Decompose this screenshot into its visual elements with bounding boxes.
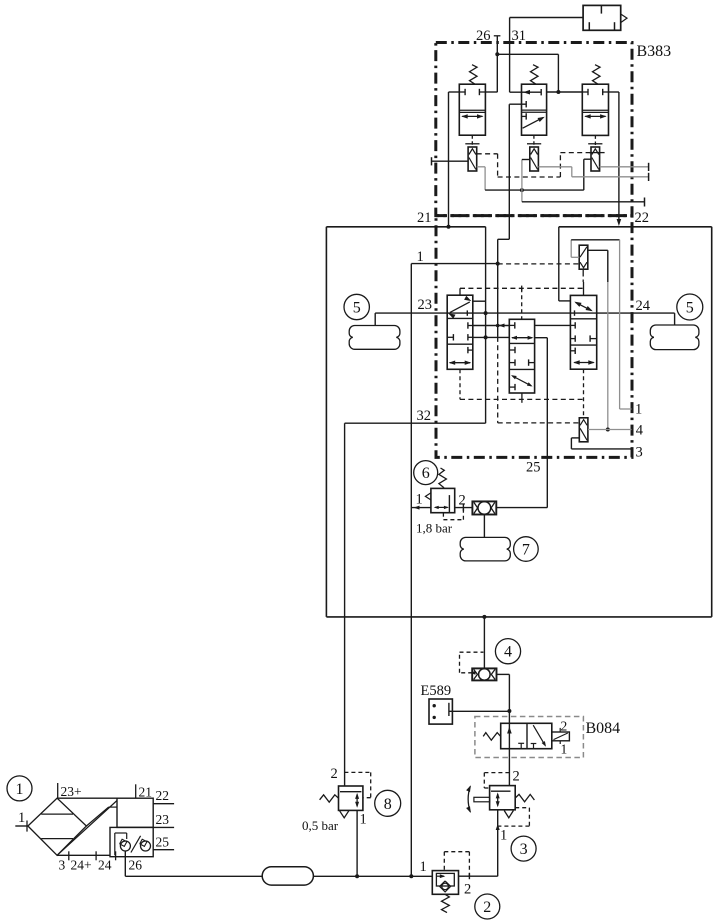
valve L tick right top (466, 310, 468, 315)
wire 32 horizontal (345, 422, 486, 424)
svg-text:32: 32 (417, 408, 432, 424)
inline reservoir (pill) (262, 867, 313, 885)
pilot line valve B (533, 135, 535, 147)
svg-text:1: 1 (16, 781, 24, 798)
wire valve C right port (609, 91, 619, 93)
valve L port right mid2 (468, 336, 473, 338)
wire 21 down (448, 92, 450, 227)
bottom edge (57, 854, 110, 856)
callout 7 (514, 537, 539, 562)
check valves inside (114, 833, 116, 855)
protection valve lower block (110, 827, 153, 856)
valve 3 lever rod (474, 797, 490, 802)
svg-text:21: 21 (139, 785, 153, 800)
valve 8 dashed pilot loop (344, 771, 370, 773)
dashed pilot to valve M (521, 288, 523, 319)
wire valve M right top to valve R (535, 324, 571, 326)
air bellows left (349, 326, 400, 350)
pilot line valve C (594, 135, 596, 147)
svg-text:E589: E589 (421, 683, 452, 699)
valve 6 relief mark (425, 493, 431, 501)
valve L exit top-right (473, 300, 486, 302)
valve R blocked low (570, 350, 575, 352)
junction 26-line / branch (495, 52, 499, 56)
svg-text:8: 8 (384, 796, 392, 813)
svg-text:1: 1 (635, 402, 642, 418)
diagonal between checks (131, 836, 141, 853)
valve L diagonal flow (450, 302, 470, 313)
svg-text:24+: 24+ (71, 858, 92, 873)
E589 connector block (429, 699, 452, 724)
bottom port ticks + labels (68, 851, 70, 860)
wire to pilot P-B (522, 159, 530, 161)
svg-text:B383: B383 (637, 43, 672, 60)
B084 blocked port right cell (533, 744, 535, 749)
valve V-B blocked port lower (522, 115, 527, 117)
valve M diagonal bottom (512, 376, 531, 386)
valve V-A blocked port right (479, 91, 485, 93)
valve 6 piston line (448, 495, 450, 513)
svg-text:3: 3 (59, 858, 66, 873)
B084 solenoid (552, 732, 570, 741)
wire valve4 out (497, 673, 510, 675)
arrowhead into valve 4 (470, 671, 476, 675)
diamond chord lower (41, 838, 73, 840)
svg-text:2: 2 (331, 766, 338, 782)
grey wire from pilot P-A (477, 166, 485, 168)
valve L pilot stub top (459, 288, 461, 295)
valve M body (3 pos) (509, 319, 534, 393)
valve 2 body (432, 871, 458, 895)
valve 8 spring left (320, 795, 339, 802)
svg-text:4: 4 (504, 644, 512, 661)
dashed pilot line P-A to P-C (477, 153, 498, 155)
svg-text:1: 1 (561, 742, 568, 757)
svg-text:1: 1 (18, 810, 25, 826)
pilot P-U bottom stub (582, 270, 584, 273)
junction frame bottom (482, 615, 486, 619)
top edge (57, 797, 117, 799)
protection valve upper block (117, 798, 153, 827)
valve 6 body (431, 488, 455, 512)
valve V-B port 1 line (509, 103, 526, 105)
port 26 tick (494, 35, 501, 37)
grey wire branch (521, 160, 523, 202)
B084 blocked port left cell (520, 743, 522, 748)
wire silencer to port 31 (510, 17, 583, 19)
svg-text:24: 24 (636, 298, 651, 314)
svg-text:26: 26 (129, 858, 143, 873)
wire out right lower (522, 201, 645, 203)
valve 2 dashed pilot loop (443, 852, 445, 871)
valve M blocked l2 (509, 349, 515, 351)
dash-dot enclosure B383 (436, 43, 632, 216)
grey loop wire to port 1 (571, 256, 579, 258)
valve V-C blocked port right (603, 91, 609, 93)
long diagonal (57, 801, 117, 856)
valve V-B diagonal flow (523, 118, 543, 129)
svg-text:23: 23 (156, 812, 170, 827)
ports right (153, 803, 174, 805)
valve L pilot stub bottom dashed (459, 369, 461, 399)
svg-text:0,5 bar: 0,5 bar (302, 818, 339, 833)
valve 3 spring right (515, 794, 534, 801)
pilot P-C top tick (588, 143, 602, 145)
wire down to valve block (497, 239, 499, 337)
valve 3 body (490, 786, 516, 810)
pilot P-C cross tick (589, 152, 604, 154)
valve V-B body (522, 84, 547, 135)
dashed pilot from jog wire down (497, 337, 499, 423)
svg-text:24: 24 (98, 858, 112, 873)
valve L flow arrows bottom (450, 362, 471, 364)
valve V-A blocked port left (459, 91, 465, 93)
pilot P-D lower right (579, 418, 588, 442)
short diagonal (86, 807, 108, 826)
svg-text:22: 22 (156, 788, 170, 803)
junction valve8 (355, 874, 359, 878)
valve R body (3 pos) (570, 295, 596, 369)
valve L blocked right low (468, 349, 473, 351)
valve R pilot stub bottom (583, 369, 585, 418)
valve 3 lever arc (468, 786, 470, 812)
silencer (exhaust) top right (583, 5, 621, 30)
dashed pilot wire to upper-right pilot (498, 263, 580, 265)
svg-text:23+: 23+ (61, 784, 82, 799)
valve B084 body (501, 723, 552, 748)
svg-text:1,8 bar: 1,8 bar (416, 521, 453, 536)
wire 32 riser (485, 227, 487, 423)
wire down to two-way valve 4 (483, 617, 485, 669)
valve 2 flow arrow (440, 874, 446, 878)
valve R port left mid (570, 324, 575, 326)
pilot P-U upper right (579, 245, 588, 269)
svg-text:1: 1 (360, 812, 367, 828)
wire shuttle to bellows 7 (483, 515, 485, 538)
svg-text:2: 2 (561, 719, 568, 734)
valve R blocked l (570, 338, 575, 340)
wire supply out of protection valve (124, 851, 126, 876)
valve M port left top (509, 324, 515, 326)
pilot P-B top tick (527, 143, 541, 145)
valve V-B arrow from 31 (510, 91, 542, 93)
valve 3 vertical arrows (497, 794, 499, 806)
wire valve A right port to 26 (485, 91, 497, 93)
valve L body (3 pos) (447, 295, 473, 369)
left bellows feed (374, 313, 376, 325)
svg-text:2: 2 (464, 882, 471, 898)
valve R blocked r (590, 338, 597, 340)
wire port 25 down (546, 338, 548, 508)
valve R diagonal flow (576, 302, 592, 310)
wire down to valve 3 (508, 674, 510, 785)
valve 2 check: diamond + circle (440, 881, 451, 892)
svg-text:6: 6 (422, 465, 430, 482)
svg-text:25: 25 (156, 835, 170, 850)
grey wire from pilot P-C (600, 166, 649, 168)
svg-text:25: 25 (526, 460, 541, 476)
terminator (648, 163, 650, 171)
svg-text:1: 1 (420, 859, 427, 875)
wire valve B port1 down (508, 104, 510, 239)
wire valve3 port1 down (497, 810, 499, 877)
arrow into port1 line (496, 824, 500, 830)
callout 6 (414, 461, 438, 485)
svg-text:7: 7 (522, 542, 530, 559)
valve 3 dashed pilot top (484, 772, 509, 774)
svg-text:1: 1 (417, 249, 424, 265)
pilot P-A top tick (465, 143, 479, 145)
pilot P-B (530, 147, 539, 171)
pilot line valve A (471, 135, 473, 147)
test port at left box edge (431, 157, 433, 165)
valve 6 dashed pilot loop (442, 513, 444, 520)
B084 right cell diagonal (533, 725, 545, 745)
valve M bottom stub (521, 393, 523, 403)
svg-text:5: 5 (686, 300, 694, 317)
frame box (solid) (326, 226, 485, 228)
valve M blocked l3 (509, 362, 515, 364)
valve V-A spring (470, 65, 478, 85)
valve V-B spring (531, 65, 539, 85)
port 1 left (15, 825, 28, 827)
two-way valve at 6 (472, 501, 496, 514)
svg-text:2: 2 (513, 769, 520, 785)
valve L blocked left (447, 336, 453, 338)
svg-text:23: 23 (418, 297, 433, 313)
callout 3 (511, 836, 536, 861)
valve R tick left top (574, 310, 576, 315)
wire 25 to shuttle (496, 507, 547, 509)
wire 22 down (618, 92, 620, 224)
pilot P-C (591, 147, 600, 171)
valve M outward arrows (512, 337, 532, 339)
wire valve6 port2 (455, 507, 473, 509)
svg-text:3: 3 (636, 445, 643, 461)
callout 4 (495, 639, 520, 664)
valve V-C blocked port left (582, 91, 588, 93)
valve 8 vertical arrows (356, 795, 358, 807)
junction supply riser (409, 874, 413, 878)
wire valve L right mid to middle valve (473, 325, 510, 327)
valve M blocked r3 (529, 362, 535, 364)
wire E589 to main line (449, 710, 509, 712)
valve R flow arrows bottom (574, 362, 594, 364)
valve 6 spring (439, 468, 447, 488)
tick middle stub (521, 286, 523, 291)
dash-dot enclosure lower valve block (436, 216, 632, 458)
wire valve M right out to port 25 (535, 337, 548, 339)
wire to valve R top port (558, 227, 560, 301)
svg-text:21: 21 (417, 210, 432, 226)
svg-text:3: 3 (520, 841, 528, 858)
wire 32 down to valve 8 (344, 423, 346, 786)
port ticks top (57, 783, 59, 798)
callout 5 left (344, 294, 369, 319)
pilot P-A (468, 147, 477, 171)
valve 3 exhaust V (504, 811, 513, 818)
svg-text:22: 22 (635, 210, 650, 226)
diamond chord upper (41, 813, 73, 815)
B084 up arrow (507, 727, 512, 734)
grey wire port 4 (588, 429, 632, 431)
valve V-A flow arrows (462, 115, 482, 117)
wire long vertical supply (410, 264, 412, 877)
valve R pilot stub (583, 282, 585, 295)
grey wire down to port 4 (607, 282, 609, 430)
right bellows feed (674, 313, 676, 325)
callout 1 (7, 776, 32, 801)
svg-text:1: 1 (416, 492, 423, 508)
wire supply to pilot P-A (432, 160, 469, 162)
wire pilot supply rail (485, 189, 584, 191)
branch wire to valve C side (497, 53, 558, 55)
valve V-C spring (593, 65, 601, 85)
dashed enclosure B084 (475, 717, 584, 758)
check valve circle 1 (120, 841, 130, 851)
wire pilot P-U out (588, 249, 608, 251)
arrow into frame line (617, 219, 622, 226)
svg-text:4: 4 (636, 423, 644, 439)
valve 6 flow arrow (435, 506, 447, 508)
wire valve 8 port1 down (356, 810, 358, 876)
main rail 23-24 (375, 312, 674, 314)
valve 8 exhaust V (340, 811, 349, 818)
wire main rail (125, 875, 262, 877)
air bellows right (650, 325, 699, 350)
B084 spring left (483, 733, 501, 741)
wire port 3 (571, 437, 579, 439)
svg-text:2: 2 (483, 899, 491, 916)
air bellows 7 (460, 537, 510, 561)
valve 2 spring below (442, 894, 450, 912)
wire valve2 port2 (459, 875, 498, 877)
valve V-C flow arrows (585, 115, 605, 117)
dashed pilot rail y399 (460, 398, 584, 400)
valve V-C body (582, 84, 608, 135)
junction at rail (556, 90, 560, 94)
valve L port right mid1 (468, 325, 473, 327)
two-way valve 4 (472, 668, 496, 680)
junction (520, 188, 524, 192)
wire cross link (473, 336, 510, 338)
svg-text:5: 5 (353, 300, 361, 317)
wire jog (498, 238, 510, 240)
callout 8 (375, 790, 401, 816)
wire valve A left port (449, 91, 460, 93)
dashed pilot rail above valves (460, 287, 584, 289)
protection valve diamond (28, 798, 87, 855)
wire valve6 port1 (411, 507, 431, 509)
svg-text:2: 2 (459, 493, 466, 509)
dashed loop at valve 4 (460, 672, 473, 674)
terminator (648, 173, 650, 181)
callout 2 (475, 894, 500, 919)
junction 21 wire / frame top (447, 225, 451, 229)
valve V-A body (459, 84, 485, 135)
grey wire from pilot P-B (538, 166, 571, 168)
svg-text:B084: B084 (586, 720, 621, 737)
wire up to pilot P-C (583, 159, 585, 190)
svg-text:1: 1 (500, 828, 507, 844)
wire 31 down to valve B (509, 18, 511, 93)
junction E589 (507, 709, 511, 713)
valve 3 dashed pilot bottom (515, 807, 529, 809)
valve M blocked bottom (509, 386, 515, 388)
wire down to rail y92 (557, 54, 559, 92)
port 1 wire (left) (411, 263, 497, 265)
wire 26 down (496, 36, 498, 92)
terminator (644, 198, 646, 207)
valve 8 body (339, 786, 363, 810)
wire valve B to valve C (547, 91, 583, 93)
callout 5 right (677, 294, 703, 320)
check valve circle 2 (141, 841, 151, 851)
